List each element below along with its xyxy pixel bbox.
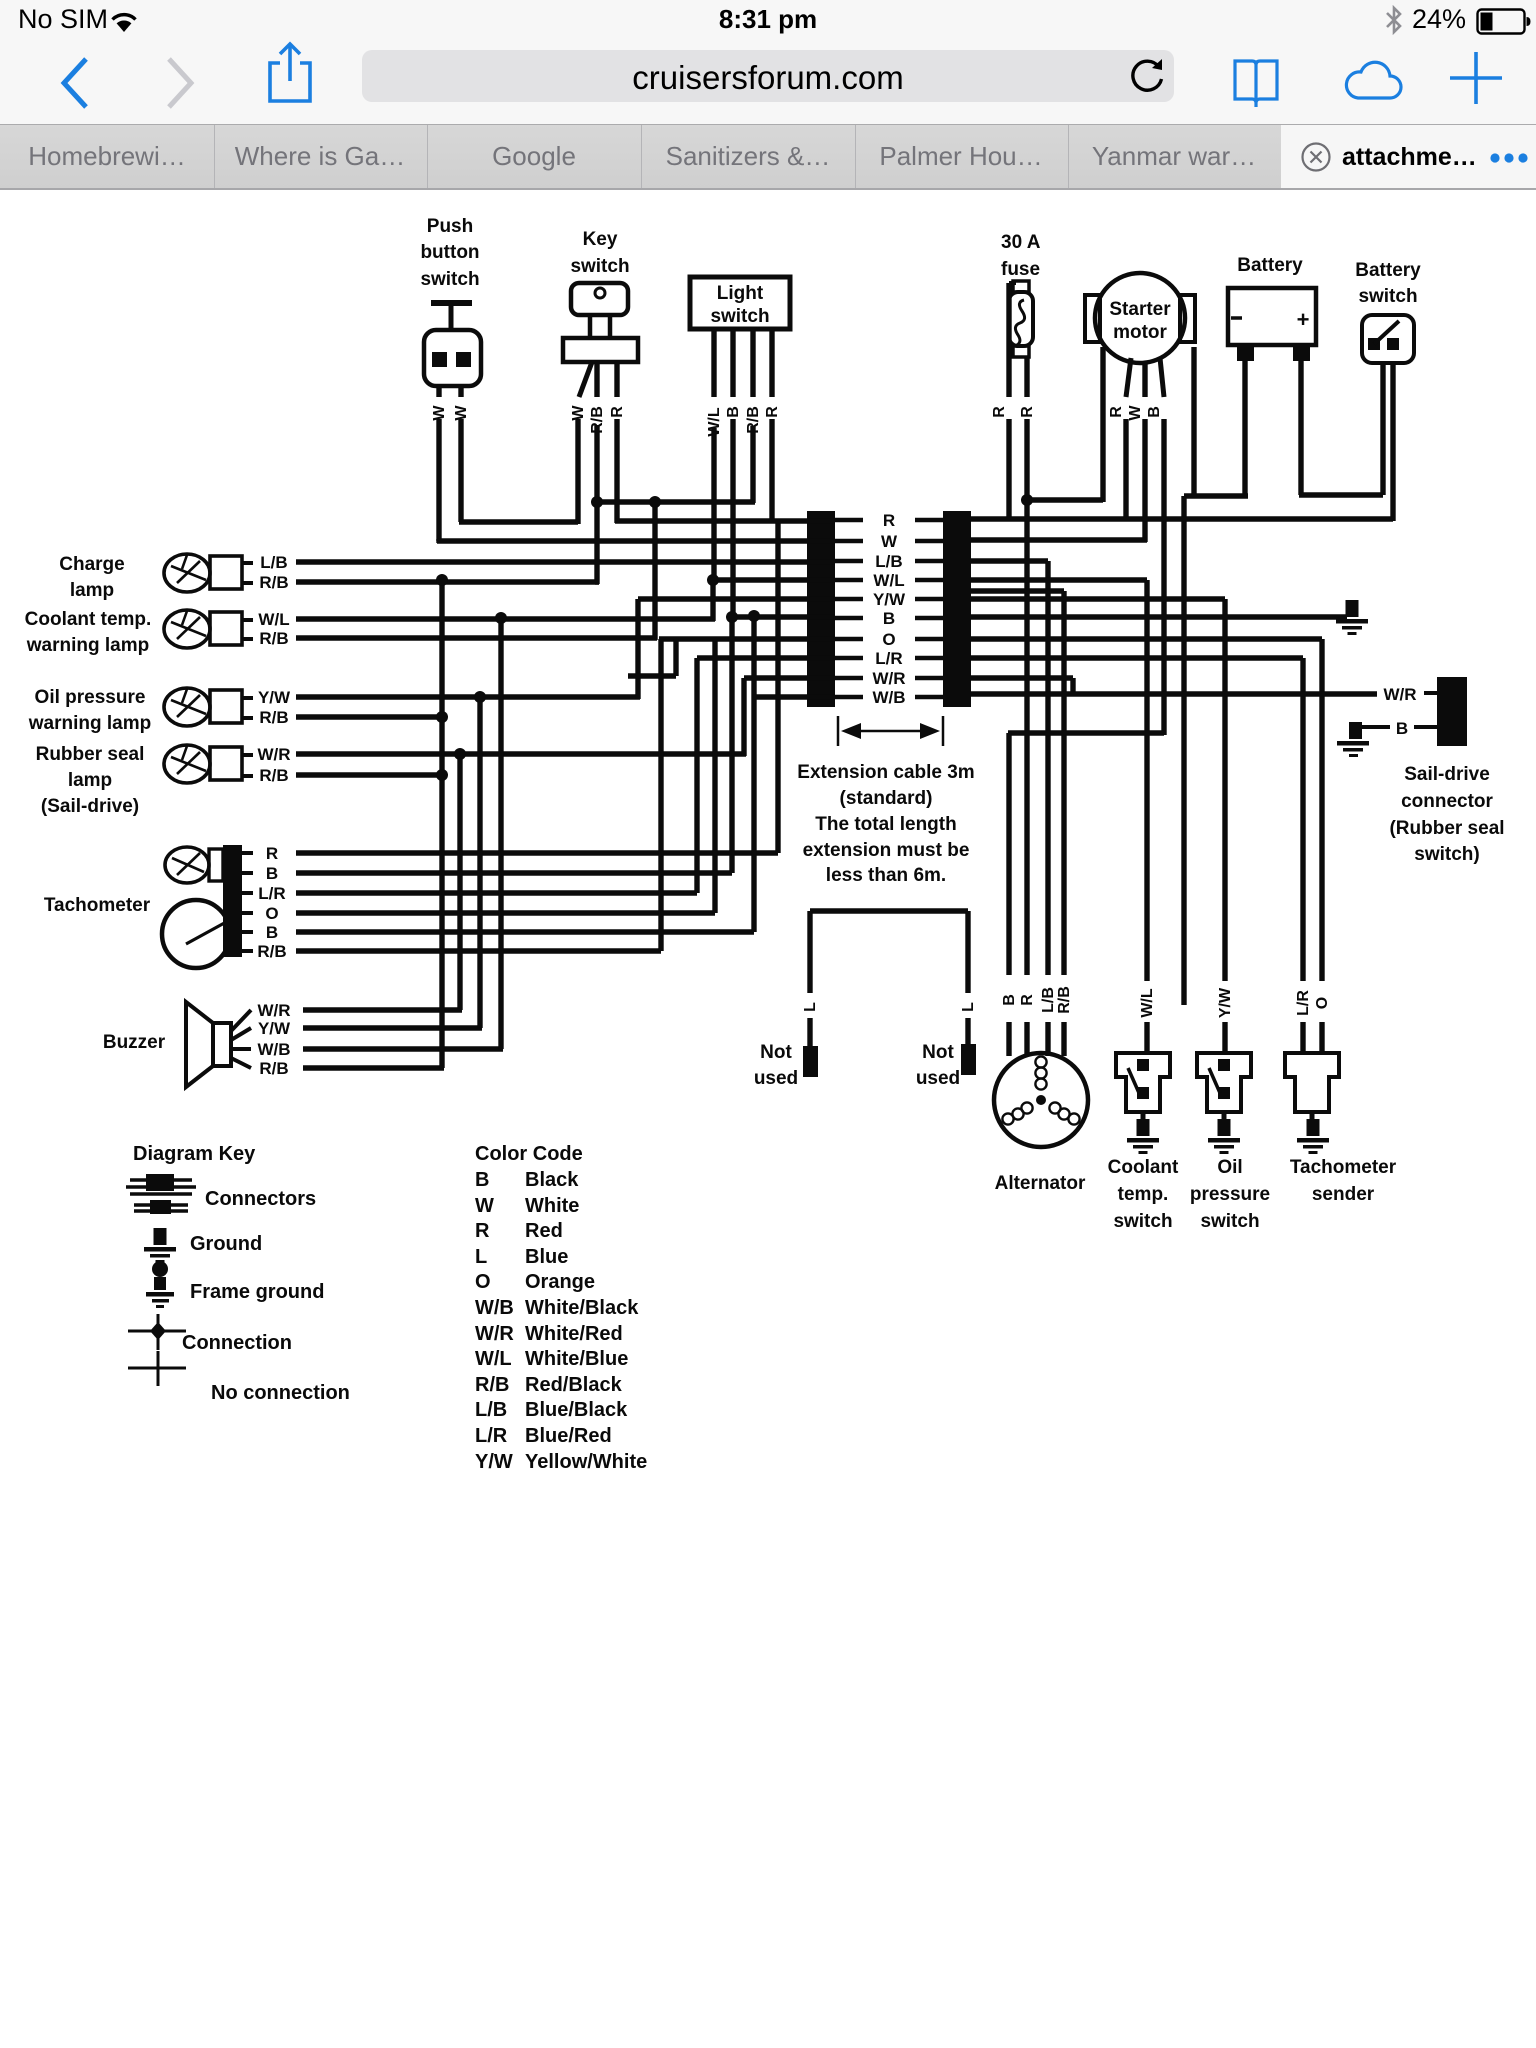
svg-text:Connection: Connection (182, 1332, 292, 1354)
wire R (fuse to starter link) (1027, 497, 1103, 502)
wire R/B right to alternator (971, 591, 1064, 1056)
svg-text:motor: motor (1113, 322, 1167, 343)
svg-text:R: R (609, 406, 626, 418)
svg-text:Frame ground: Frame ground (190, 1281, 324, 1303)
wire W (push button left) (431, 386, 448, 541)
svg-text:Light: Light (717, 283, 764, 304)
svg-text:L/R: L/R (1295, 990, 1312, 1016)
starter motor M (1085, 273, 1195, 363)
wire row L/R right to tachometer sender (971, 658, 1303, 1055)
svg-text:O: O (1314, 997, 1331, 1009)
svg-text:Y/W: Y/W (258, 1019, 291, 1038)
svg-text:W/B: W/B (475, 1297, 514, 1319)
junction (474, 691, 486, 703)
wire W/R label and stub (sail-drive) (1383, 685, 1437, 704)
svg-text:switch: switch (1358, 286, 1417, 307)
svg-text:L/B: L/B (260, 553, 287, 572)
connector bar left (807, 511, 835, 707)
sail-drive connector (1389, 677, 1504, 865)
wire R (fuse left) (991, 283, 1016, 521)
svg-text:Battery: Battery (1355, 260, 1421, 281)
legend frame ground symbol (146, 1261, 324, 1308)
svg-text:(Sail-drive): (Sail-drive) (41, 796, 139, 817)
svg-text:W: W (453, 405, 470, 421)
wire R/B (coolant lamp) (242, 629, 657, 648)
wire R/B riser (link to coolant lamp) (652, 502, 657, 640)
svg-text:B: B (1146, 406, 1163, 418)
svg-text:Y/W: Y/W (475, 1451, 513, 1473)
svg-text:B: B (1396, 719, 1408, 738)
wire O (tachometer to row O) (296, 639, 715, 913)
svg-text:Buzzer: Buzzer (103, 1032, 166, 1053)
junction (726, 611, 738, 623)
svg-text:Red/Black: Red/Black (525, 1374, 623, 1396)
junction (436, 574, 448, 586)
junction (495, 612, 507, 624)
light switch (690, 277, 790, 329)
ground (sail-drive B) (1337, 722, 1369, 757)
wire not used bracket (810, 911, 968, 993)
wire battery positive (1299, 361, 1383, 495)
svg-text:Oil pressure: Oil pressure (35, 687, 146, 708)
svg-text:L: L (475, 1246, 487, 1268)
wire L (not used right) (960, 1002, 977, 1044)
junction (591, 496, 603, 508)
svg-text:W: W (1127, 405, 1144, 421)
wire row O left (659, 636, 835, 641)
svg-text:Rubber seal: Rubber seal (36, 744, 145, 765)
wire Y/W (oil lamp) (242, 688, 640, 707)
svg-text:Black: Black (525, 1169, 579, 1191)
wire battery negative (1184, 361, 1248, 1005)
junction (436, 711, 448, 723)
legend connection symbol (128, 1314, 292, 1354)
svg-text:B: B (266, 864, 278, 883)
svg-text:less than 6m.: less than 6m. (826, 865, 946, 886)
wire L/B (charge lamp) (242, 553, 835, 572)
svg-text:Coolant temp.: Coolant temp. (25, 609, 152, 630)
svg-text:30 A: 30 A (1001, 232, 1041, 253)
cable row O (835, 630, 943, 649)
svg-text:W: W (431, 405, 448, 421)
oil pressure switch (1190, 1053, 1270, 1232)
wire R (tachometer pin) (242, 844, 278, 863)
svg-text:R: R (475, 1220, 490, 1242)
lamp oil pressure warning (28, 687, 242, 734)
svg-text:W/B: W/B (257, 1040, 290, 1059)
junction (1021, 494, 1033, 506)
legend no connection symbol (128, 1351, 350, 1404)
wire row B right to ground (971, 614, 1347, 619)
svg-text:Y/W: Y/W (873, 590, 906, 609)
wire R row to key and light (615, 518, 835, 523)
svg-text:W/L: W/L (1139, 988, 1156, 1018)
svg-text:W: W (881, 532, 898, 551)
svg-text:R: R (1019, 406, 1036, 418)
svg-text:Yellow/White: Yellow/White (525, 1451, 647, 1473)
svg-text:R: R (764, 406, 781, 418)
wire R/B (charge lamp) (242, 573, 599, 592)
alternator G (994, 1053, 1088, 1194)
svg-text:warning lamp: warning lamp (26, 635, 149, 656)
wire R (fuse bottom to alternator) (1019, 357, 1036, 1056)
cable row W/L (835, 571, 943, 590)
svg-text:W/R: W/R (1383, 685, 1416, 704)
wire R/B (tachometer pin) (242, 942, 287, 961)
wire row W/R right jog (971, 678, 1073, 694)
fuse F1 30A (1001, 232, 1041, 357)
svg-text:L: L (802, 1002, 819, 1012)
svg-text:switch: switch (1113, 1211, 1172, 1232)
svg-text:White/Red: White/Red (525, 1323, 623, 1345)
battery BT1 (1228, 255, 1316, 361)
svg-text:connector: connector (1401, 791, 1493, 812)
wire Y/W bus vertical (477, 697, 482, 1028)
svg-text:Y/W: Y/W (258, 688, 291, 707)
svg-text:+: + (1297, 307, 1310, 332)
svg-text:Not: Not (760, 1042, 792, 1063)
wire B2 (tachometer to row B) (296, 616, 754, 932)
wire L (not used left) (802, 1002, 819, 1046)
lamp charge (59, 554, 242, 601)
cable row L/B (835, 552, 943, 571)
svg-text:Alternator: Alternator (995, 1173, 1086, 1194)
svg-text:sender: sender (1312, 1184, 1375, 1205)
svg-text:R/B: R/B (259, 573, 288, 592)
wire starter frame to battery negative (1191, 347, 1196, 496)
junction (454, 748, 466, 760)
wire R/B link (key to light switch) (597, 499, 755, 504)
wire row L/R left (697, 655, 835, 660)
svg-text:switch: switch (710, 306, 769, 327)
cable row Y/W (835, 590, 943, 609)
svg-text:W/R: W/R (475, 1323, 514, 1345)
wire L/R (tachometer to row L/R) (296, 658, 697, 893)
svg-text:B: B (725, 406, 742, 418)
svg-text:Charge: Charge (59, 554, 124, 575)
wire W (starter motor) (1127, 363, 1145, 542)
svg-text:White: White (525, 1195, 579, 1217)
wire R/B (buzzer pin) (231, 1058, 289, 1078)
tachometer sender (1285, 1053, 1397, 1205)
wire R/B (tachometer to R/B bus) (296, 639, 661, 951)
wire R (tachometer to R bus) (296, 521, 778, 853)
ground (oil pressure switch) (1218, 1119, 1231, 1136)
wire row O right to tachometer sender (971, 639, 1322, 1055)
svg-text:(standard): (standard) (840, 788, 933, 809)
svg-text:B: B (883, 609, 895, 628)
wire B (starter motor) (1146, 358, 1164, 735)
svg-text:L/B: L/B (875, 552, 902, 571)
legend ground symbol (144, 1228, 262, 1263)
svg-text:Battery: Battery (1237, 255, 1303, 276)
svg-text:R/B: R/B (257, 942, 286, 961)
key switch (563, 229, 638, 362)
battery switch S2 (1355, 260, 1421, 363)
wire W to row W (437, 539, 835, 543)
svg-text:B: B (266, 923, 278, 942)
svg-text:extension must be: extension must be (803, 840, 970, 861)
wire stub row O jog (628, 639, 676, 676)
wire row Y/W right to oil pressure switch (971, 599, 1225, 1055)
svg-text:R: R (266, 844, 278, 863)
svg-text:Oil: Oil (1217, 1157, 1242, 1178)
note extension cable (797, 762, 974, 886)
svg-text:White/Black: White/Black (525, 1297, 639, 1319)
svg-text:W/R: W/R (872, 669, 905, 688)
svg-text:Not: Not (922, 1042, 954, 1063)
wire R (starter motor) (1108, 358, 1131, 521)
svg-text:No connection: No connection (211, 1382, 350, 1404)
push button switch (420, 216, 481, 386)
svg-text:B: B (475, 1169, 489, 1191)
svg-text:W/R: W/R (257, 1001, 290, 1020)
svg-text:W: W (475, 1195, 494, 1217)
svg-text:O: O (265, 904, 278, 923)
svg-text:(Rubber seal: (Rubber seal (1389, 818, 1504, 839)
svg-text:Tachometer: Tachometer (44, 895, 151, 916)
wire W (push button right) (453, 386, 578, 522)
svg-text:Sail-drive: Sail-drive (1404, 764, 1490, 785)
svg-text:R/B: R/B (259, 766, 288, 785)
svg-text:switch: switch (420, 269, 479, 290)
wire battery switch pole 2 to R bus (1390, 363, 1395, 521)
wire row W right to starter (971, 537, 1147, 542)
wire R/B (key switch) (589, 362, 606, 584)
svg-text:W/L: W/L (258, 610, 289, 629)
svg-text:O: O (475, 1271, 491, 1293)
svg-text:Orange: Orange (525, 1271, 595, 1293)
cable row W (835, 532, 943, 551)
svg-text:warning lamp: warning lamp (28, 713, 151, 734)
svg-text:Diagram Key: Diagram Key (133, 1143, 256, 1165)
svg-text:The total length: The total length (815, 814, 956, 835)
svg-text:R: R (883, 511, 895, 530)
svg-text:R: R (1019, 994, 1036, 1006)
svg-text:Connectors: Connectors (205, 1188, 316, 1210)
svg-text:Blue/Black: Blue/Black (525, 1399, 628, 1421)
wire W/B (buzzer pin) (231, 1040, 291, 1059)
svg-text:R/B: R/B (475, 1374, 509, 1396)
wire W/R (rubber seal lamp) (242, 745, 746, 764)
wire B (tachometer pin) (242, 923, 278, 942)
wire W/L bus vertical (498, 618, 503, 1049)
svg-text:Red: Red (525, 1220, 563, 1242)
wire R/B (oil lamp) (242, 708, 444, 727)
svg-text:L/R: L/R (258, 884, 285, 903)
svg-text:Y/W: Y/W (1217, 987, 1234, 1018)
svg-text:Extension cable 3m: Extension cable 3m (797, 762, 974, 783)
wire B (tachometer pin) (242, 864, 278, 883)
cable row W/B (835, 688, 943, 707)
lamp rubber seal (sail-drive) (36, 744, 242, 817)
svg-text:R: R (1108, 406, 1125, 418)
wire row B left (732, 614, 835, 619)
svg-text:W/B: W/B (872, 688, 905, 707)
svg-text:L/B: L/B (1040, 987, 1057, 1013)
svg-text:Ground: Ground (190, 1233, 262, 1255)
extension cable dimension arrow (838, 716, 943, 746)
wire row Y/W left with jog to oil lamp (638, 599, 835, 699)
svg-text:R/B: R/B (259, 708, 288, 727)
wire R/B (key to charge lamp) (595, 579, 599, 584)
svg-text:L/B: L/B (475, 1399, 507, 1421)
wire B (sail-drive to ground) (1362, 719, 1437, 738)
ground (tachometer sender) (1307, 1119, 1320, 1136)
buzzer (103, 1002, 231, 1087)
legend color code (475, 1143, 647, 1473)
svg-text:Starter: Starter (1109, 299, 1171, 320)
wire R (key switch) (609, 362, 626, 523)
wire row W/B left (754, 694, 835, 699)
svg-text:used: used (916, 1068, 960, 1089)
coolant temp switch (1108, 1053, 1179, 1232)
svg-text:Coolant: Coolant (1108, 1157, 1179, 1178)
svg-text:switch: switch (570, 256, 629, 277)
wire W/B (buzzer to W/B bus) (303, 1046, 503, 1051)
svg-text:button: button (420, 242, 479, 263)
svg-text:Push: Push (427, 216, 473, 237)
wire R/B bus vertical (439, 580, 444, 1068)
wire row W/L left (713, 580, 835, 621)
svg-text:W/R: W/R (257, 745, 290, 764)
wire row W/B right to sail-drive connector (971, 691, 1377, 696)
svg-text:R: R (991, 406, 1008, 418)
ground (coolant temp switch) (1137, 1119, 1150, 1136)
svg-text:R/B: R/B (259, 1059, 288, 1078)
svg-text:temp.: temp. (1118, 1184, 1169, 1205)
wire B ground bus (starter and alternator) (1008, 733, 1164, 1056)
tachometer gauge (44, 845, 242, 968)
svg-text:O: O (882, 630, 895, 649)
wire Y/W (buzzer to Y/W bus) (303, 1025, 482, 1030)
cable row L/R (835, 649, 943, 668)
svg-text:W/L: W/L (475, 1348, 512, 1370)
wire O (tachometer pin) (242, 904, 279, 923)
wire row R right to battery switch and fuse (971, 516, 1393, 521)
svg-text:switch): switch) (1414, 844, 1479, 865)
svg-text:L: L (960, 1002, 977, 1012)
junction (707, 574, 719, 586)
wire B (light switch) (725, 329, 742, 618)
lamp coolant temp warning (25, 609, 242, 656)
svg-text:switch: switch (1200, 1211, 1259, 1232)
wire R (light switch) (764, 329, 781, 523)
svg-text:Color Code: Color Code (475, 1143, 583, 1165)
svg-text:fuse: fuse (1001, 259, 1040, 280)
svg-text:W/L: W/L (873, 571, 904, 590)
svg-text:used: used (754, 1068, 798, 1089)
wire W/L (light switch) (706, 329, 723, 580)
svg-text:B: B (1001, 994, 1018, 1006)
ground (row B) (1336, 600, 1368, 635)
legend connectors symbol (126, 1174, 316, 1214)
wire W/R bus vertical (457, 754, 462, 1010)
svg-text:Key: Key (583, 229, 618, 250)
wire L/R (tachometer pin) (242, 884, 286, 903)
svg-text:R/B: R/B (259, 629, 288, 648)
svg-text:Tachometer: Tachometer (1290, 1157, 1397, 1178)
wire W (key switch) (570, 362, 592, 524)
wire W/L (coolant lamp) (242, 610, 715, 629)
wire W/R (buzzer to W/R bus) (303, 1007, 462, 1012)
cable row W/R (835, 669, 943, 688)
terminal not used right (916, 1042, 976, 1089)
svg-text:White/Blue: White/Blue (525, 1348, 628, 1370)
wire R/B (light switch) (745, 329, 762, 503)
cable row B (835, 609, 943, 628)
junction (748, 610, 760, 622)
wire R/B (rubber seal lamp) (242, 766, 444, 785)
svg-text:Blue/Red: Blue/Red (525, 1425, 612, 1447)
svg-text:Blue: Blue (525, 1246, 568, 1268)
wire B (tachometer to row B) (296, 617, 732, 873)
wire Y/W (buzzer pin) (231, 1019, 291, 1040)
junction (436, 769, 448, 781)
wire row W/R left with jog to rubber seal lamp (744, 678, 835, 756)
svg-text:L/R: L/R (475, 1425, 508, 1447)
wire row W/L right to coolant temp switch (971, 580, 1147, 1055)
connector bar right (943, 511, 971, 707)
terminal not used left (754, 1042, 818, 1089)
svg-text:L/R: L/R (875, 649, 902, 668)
wire row L/B right to alternator (971, 561, 1048, 1056)
junction (649, 496, 661, 508)
svg-text:W: W (570, 405, 587, 421)
svg-text:pressure: pressure (1190, 1184, 1270, 1205)
svg-text:lamp: lamp (70, 580, 114, 601)
wire W/R (buzzer pin) (231, 1001, 291, 1031)
cable row R (835, 511, 943, 530)
svg-text:lamp: lamp (68, 770, 112, 791)
wire R/B (buzzer to R/B bus) (303, 1065, 444, 1070)
svg-text:R/B: R/B (1056, 986, 1073, 1014)
wire starter frame left (1100, 347, 1105, 502)
